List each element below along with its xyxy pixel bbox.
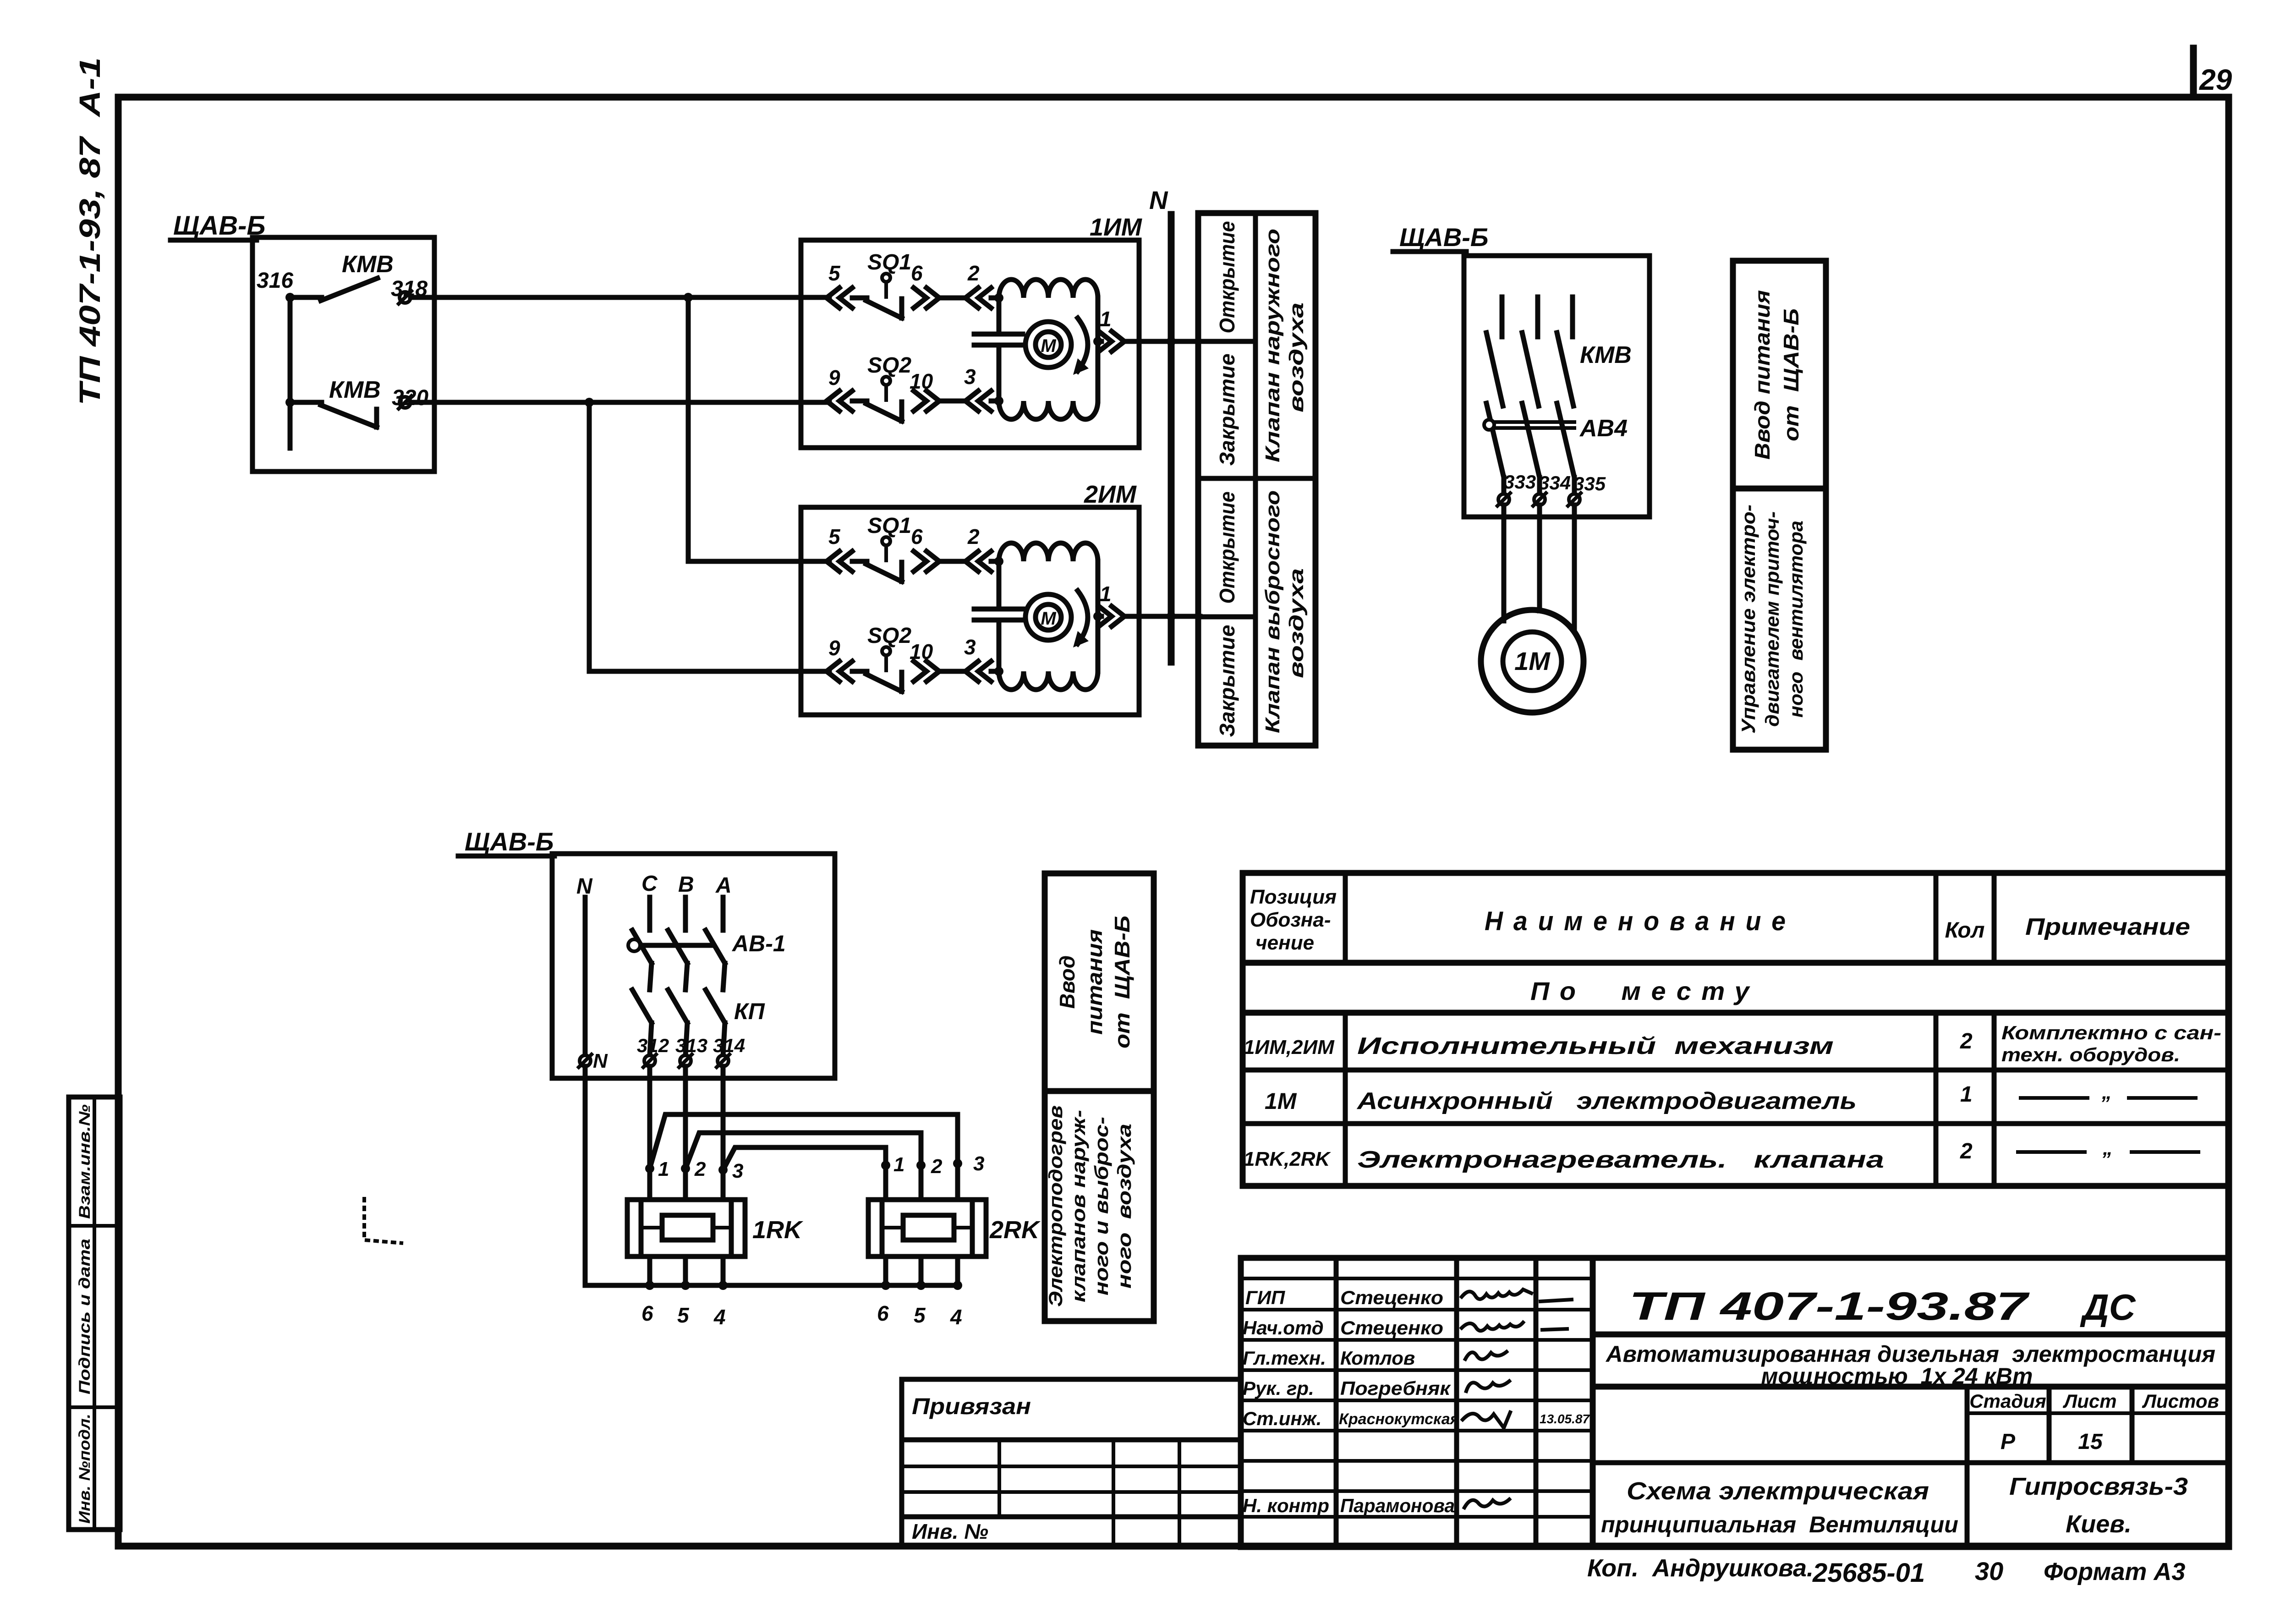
- svg-text:1: 1: [1100, 582, 1112, 606]
- svg-text:316: 316: [257, 269, 293, 293]
- info box (middle) frame: [1045, 873, 1154, 1321]
- signature table columns: [1336, 1258, 1536, 1547]
- svg-text:4: 4: [950, 1305, 962, 1329]
- svg-text:2: 2: [694, 1158, 706, 1180]
- terminal 334 circle: [1533, 493, 1546, 506]
- valve status legend box: [1198, 213, 1315, 746]
- legend cell Клапан выбросного воздуха: [1261, 490, 1308, 733]
- winding right leg (2ИМ): [1096, 561, 1101, 671]
- info box (right) frame: [1733, 261, 1826, 750]
- svg-text:2: 2: [931, 1155, 943, 1178]
- actuator block 1ИМ box: [801, 240, 1139, 448]
- title block outer frame: [1241, 1258, 2229, 1547]
- svg-text:ного и выброс-: ного и выброс-: [1091, 1117, 1112, 1295]
- svg-text:воздуха: воздуха: [1285, 568, 1308, 678]
- svg-text:Парамонова: Парамонова: [1340, 1495, 1455, 1516]
- terminal 335 circle: [1568, 493, 1581, 506]
- connector chevrons pin 2 (2ИМ): [965, 551, 1000, 571]
- neutral wire down to bottom bus: [583, 1066, 588, 1285]
- svg-text:„: „: [2102, 1137, 2113, 1159]
- svg-text:5: 5: [828, 525, 841, 549]
- phase wire 312 down to heater 1RK pin 1: [647, 1066, 652, 1200]
- svg-text:КП: КП: [734, 999, 765, 1024]
- junction 2RK pin 2: [916, 1161, 926, 1170]
- svg-text:15: 15: [2078, 1430, 2103, 1454]
- svg-text:Взам.инв.№: Взам.инв.№: [76, 1104, 93, 1219]
- svg-text:5: 5: [914, 1303, 926, 1327]
- motor output wire (1ИМ): [1098, 339, 1102, 344]
- svg-text:1М: 1М: [1514, 647, 1551, 675]
- terminal 313 circle: [679, 1054, 692, 1067]
- table row 1ИМ,2ИМ Исполнительный механизм: [1244, 1022, 2221, 1065]
- svg-text:клапанов наруж-: клапанов наруж-: [1068, 1110, 1089, 1302]
- winding node row1 (1ИМ): [994, 293, 1003, 302]
- terminal 312 circle: [643, 1054, 656, 1067]
- capacitor C (2ИМ): [974, 561, 1023, 671]
- limit switch SQ2 (1ИМ): [866, 377, 902, 421]
- svg-text:6: 6: [911, 261, 923, 285]
- organisation Гипросвязь-3 Киев: [2009, 1473, 2188, 1538]
- connector chevrons pin 6 (1ИМ): [914, 288, 966, 308]
- node on bus for lower contact: [285, 398, 295, 407]
- svg-text:1RK,2RK: 1RK,2RK: [1244, 1148, 1331, 1170]
- svg-text:питания: питания: [1083, 929, 1107, 1035]
- connector chevrons pin 3 (1ИМ): [965, 391, 1000, 411]
- svg-text:Стадия: Стадия: [1969, 1390, 2046, 1412]
- svg-text:29: 29: [2199, 63, 2232, 96]
- svg-text:В: В: [678, 872, 694, 897]
- limit switch SQ1 (2ИМ): [866, 537, 902, 582]
- actuator block 2ИМ box: [801, 507, 1139, 715]
- svg-text:Формат А3: Формат А3: [2044, 1558, 2185, 1586]
- svg-text:1: 1: [893, 1153, 904, 1176]
- svg-text:SQ2: SQ2: [867, 624, 911, 648]
- electric heater 1RK symbol: [627, 1200, 745, 1256]
- breaker АВ-1 pole C: [632, 897, 652, 990]
- svg-text:Киев.: Киев.: [2066, 1510, 2132, 1538]
- info text Ввод питания от ЩАВ-Б (right): [1750, 290, 1803, 460]
- svg-text:Ввод питания: Ввод питания: [1750, 290, 1774, 460]
- svg-text:Примечание: Примечание: [2025, 914, 2190, 940]
- svg-text:Кол: Кол: [1945, 918, 1985, 943]
- limit switch SQ1 (1ИМ): [866, 274, 902, 318]
- motor feeder wire phase C: [1572, 505, 1577, 629]
- svg-text:3: 3: [732, 1160, 743, 1182]
- line under Стадия row: [1593, 1460, 2229, 1465]
- winding node row2 (2ИМ): [994, 667, 1003, 676]
- terminal 314 circle: [717, 1054, 729, 1067]
- svg-text:от ЩАВ-Б: от ЩАВ-Б: [1779, 308, 1803, 441]
- breaker АВ-1 trip bar: [628, 939, 713, 951]
- stray pen mark: [364, 1197, 403, 1243]
- svg-text:SQ1: SQ1: [867, 250, 911, 274]
- heater 1RK bottom pin labels 6 5 4: [641, 1301, 726, 1329]
- terminal N circle (lower panel): [579, 1054, 592, 1067]
- svg-text:N: N: [593, 1050, 608, 1072]
- svg-text:Инв. №подл.: Инв. №подл.: [76, 1414, 93, 1524]
- breaker АВ4 pole A blade: [1486, 403, 1504, 494]
- svg-text:9: 9: [828, 636, 840, 660]
- svg-text:С: С: [641, 872, 658, 896]
- heater 1RK bottom leads: [650, 1256, 723, 1285]
- svg-text:6: 6: [641, 1301, 653, 1325]
- panel ЩАВ-Б (lower) label underline: [458, 854, 554, 859]
- svg-text:3: 3: [973, 1152, 984, 1175]
- breaker АВ-1 pole B: [668, 897, 687, 990]
- svg-text:Управление электро-: Управление электро-: [1737, 505, 1759, 734]
- svg-text:АВ-1: АВ-1: [731, 931, 786, 956]
- motor 1М outer circle: [1481, 610, 1584, 713]
- breaker АВ-1 pole A: [706, 897, 725, 990]
- node 316 junction: [285, 293, 295, 302]
- svg-text:А: А: [715, 873, 732, 898]
- panel ЩАВ-Б (lower) box: [552, 854, 835, 1078]
- sheet number tick mark: [2190, 48, 2197, 97]
- wire branch 1RK pin2 to 2RK pin2: [685, 1133, 921, 1169]
- svg-text:Р: Р: [2001, 1430, 2016, 1454]
- svg-text:чение: чение: [1255, 932, 1314, 954]
- svg-text:Краснокутская: Краснокутская: [1339, 1410, 1459, 1428]
- svg-text:6: 6: [877, 1301, 889, 1325]
- svg-text:N: N: [1149, 186, 1168, 214]
- junction 2ИМ output on N bus: [1167, 612, 1176, 621]
- panel ЩАВ-Б (right) box: [1464, 256, 1650, 517]
- capacitor C (1ИМ): [974, 298, 1023, 401]
- svg-text:1RK: 1RK: [752, 1216, 804, 1244]
- junction on wire 318: [684, 293, 693, 302]
- signature row Рук. гр. Погребняк: [1243, 1377, 1509, 1399]
- svg-text:1ИМ: 1ИМ: [1090, 214, 1142, 241]
- svg-text:2: 2: [967, 261, 980, 285]
- contact КМВ lower (wire and blade): [290, 402, 435, 427]
- phase wire 314 down to heater 1RK pin 3: [721, 1066, 726, 1200]
- wire 1ИМ output to N bus: [1124, 339, 1200, 344]
- svg-text:Листов: Листов: [2142, 1390, 2219, 1412]
- wires 2RK pins down into heater: [886, 1163, 958, 1200]
- wire 318 to block 1ИМ: [411, 295, 829, 300]
- svg-text:Нач.отд: Нач.отд: [1243, 1317, 1324, 1339]
- connector chevrons pin 10 (2ИМ): [914, 661, 966, 681]
- svg-text:КМВ: КМВ: [329, 377, 381, 403]
- svg-text:3: 3: [964, 365, 976, 389]
- neutral bus N: [1168, 214, 1175, 662]
- svg-text:ТП 407-1-93.87: ТП 407-1-93.87: [1629, 1284, 2030, 1328]
- motor output wire (2ИМ): [1098, 614, 1102, 619]
- wire 320 to block 1ИМ: [411, 400, 829, 405]
- junction 1ИМ output on N bus: [1167, 337, 1176, 346]
- table row 1RK,2RK Электронагреватель клапана: [1244, 1137, 2198, 1173]
- panel ЩАВ-Б (right) label underline: [1393, 249, 1466, 254]
- svg-text:Обозна-: Обозна-: [1250, 909, 1331, 931]
- svg-text:1М: 1М: [1265, 1088, 1297, 1114]
- wire branch 1RK pin1 to 2RK pin3: [650, 1114, 958, 1169]
- svg-text:Ст.инж.: Ст.инж.: [1243, 1408, 1321, 1429]
- svg-text:6: 6: [911, 525, 923, 549]
- svg-text:1: 1: [658, 1158, 669, 1180]
- motor feeder wire phase A: [1502, 505, 1507, 621]
- stator winding upper (2ИМ): [999, 543, 1098, 561]
- svg-text:ЩАВ-Б: ЩАВ-Б: [465, 827, 554, 856]
- svg-text:4: 4: [713, 1305, 726, 1329]
- svg-text:М: М: [1041, 336, 1057, 356]
- svg-text:30: 30: [1975, 1557, 2003, 1586]
- connector chevrons pin 1 (1ИМ): [1099, 331, 1124, 351]
- svg-text:5: 5: [677, 1303, 690, 1327]
- stator winding upper (1ИМ): [999, 280, 1098, 298]
- svg-text:Асинхронный электродвигатель: Асинхронный электродвигатель: [1356, 1088, 1857, 1114]
- svg-text:Наименование: Наименование: [1485, 906, 1796, 936]
- signature row Нач.отд Стеценко: [1243, 1317, 1567, 1339]
- electric heater 2RK symbol: [868, 1200, 986, 1256]
- junction 2RK pin 3: [953, 1159, 962, 1168]
- connector chevrons pin 1 (2ИМ): [1099, 606, 1124, 626]
- signature table rows: [1241, 1278, 1593, 1517]
- connector chevrons pin 9 (1ИМ): [827, 391, 867, 411]
- drawing name Схема электрическая принципиальная вентиляции: [1601, 1477, 1958, 1537]
- svg-text:2: 2: [967, 525, 980, 549]
- breaker АВ4 pole C blade: [1557, 403, 1574, 494]
- svg-text:Исполнительный механизм: Исполнительный механизм: [1357, 1033, 1834, 1059]
- svg-text:ТП 407-1-93, 87 А-1: ТП 407-1-93, 87 А-1: [73, 57, 106, 406]
- info text Ввод питания от ЩАВ-Б (middle): [1055, 916, 1134, 1048]
- panel ЩАВ-Б (top left) label underline: [170, 238, 257, 243]
- parts table frame: [1243, 873, 2229, 1186]
- heater 2RK pin labels 1 2 3: [893, 1152, 984, 1178]
- contactor КМВ pole C: [1557, 297, 1573, 406]
- svg-text:Клапан выбросного: Клапан выбросного: [1261, 490, 1284, 733]
- heater 1RK pin labels 1 2 3: [658, 1158, 743, 1182]
- motor М (2ИМ): [1025, 591, 1089, 647]
- breaker АВ4 trip bar: [1484, 420, 1574, 430]
- svg-text:1ИМ,2ИМ: 1ИМ,2ИМ: [1244, 1036, 1335, 1059]
- svg-text:1: 1: [1960, 1082, 1973, 1107]
- svg-text:2RK: 2RK: [989, 1216, 1041, 1244]
- contactor КМВ pole B: [1522, 297, 1539, 406]
- svg-text:техн. оборудов.: техн. оборудов.: [2001, 1044, 2180, 1065]
- neutral return bus at bottom: [585, 1283, 958, 1288]
- bottom bus junctions: [645, 1281, 962, 1290]
- wire branch to 2ИМ row 2: [589, 402, 829, 671]
- svg-text:334: 334: [1539, 472, 1571, 494]
- svg-text:25685-01: 25685-01: [1812, 1558, 1925, 1588]
- svg-text:АВ4: АВ4: [1579, 415, 1628, 442]
- signature row Н. контр Парамонова: [1243, 1495, 1509, 1516]
- line under document number row: [1593, 1332, 2229, 1338]
- signature row Гл.техн. Котлов: [1243, 1347, 1507, 1369]
- svg-text:Электроподогрев: Электроподогрев: [1045, 1105, 1066, 1307]
- svg-text:SQ1: SQ1: [867, 514, 911, 538]
- wire branch to 2ИМ row 1: [688, 297, 829, 561]
- svg-text:320: 320: [392, 386, 428, 410]
- terminal 333 circle: [1497, 493, 1510, 506]
- heater 2RK bottom pin labels 6 5 4: [877, 1301, 962, 1329]
- svg-text:воздуха: воздуха: [1285, 302, 1308, 412]
- svg-text:333: 333: [1504, 471, 1536, 493]
- terminal 320 circle: [399, 396, 411, 409]
- connector chevrons pin 10 (1ИМ): [914, 391, 966, 411]
- motor М (1ИМ): [1025, 318, 1089, 375]
- terminal 318 circle: [399, 291, 411, 304]
- connector chevrons pin 3 (2ИМ): [965, 661, 1000, 681]
- svg-text:КМВ: КМВ: [1580, 342, 1632, 368]
- connector chevrons pin 5 (1ИМ): [827, 288, 867, 308]
- contactor КП pole B: [668, 990, 687, 1055]
- svg-text:SQ2: SQ2: [867, 353, 911, 378]
- svg-text:Привязан: Привязан: [912, 1394, 1031, 1419]
- table row 1М Асинхронный электродвигатель: [1265, 1081, 2196, 1114]
- connector chevrons pin 2 (1ИМ): [965, 288, 1000, 308]
- junction 1RK pin 1: [645, 1164, 654, 1173]
- Привязан block frame: [902, 1379, 1241, 1547]
- legend cell Клапан наружного воздуха: [1261, 229, 1308, 462]
- contactor КП pole C: [632, 990, 652, 1055]
- junction 1RK pin 2: [681, 1164, 690, 1173]
- svg-text:Лист: Лист: [2062, 1390, 2116, 1412]
- svg-text:Коп. Андрушкова.: Коп. Андрушкова.: [1587, 1554, 1814, 1582]
- wire branch 1RK pin3 to 2RK pin1: [723, 1147, 886, 1170]
- svg-text:Погребняк: Погребняк: [1340, 1377, 1451, 1399]
- svg-text:335: 335: [1573, 473, 1606, 494]
- connector chevrons pin 6 (2ИМ): [914, 551, 966, 571]
- signature row Ст.инж. Краснокутская: [1243, 1408, 1590, 1429]
- svg-text:9: 9: [828, 366, 840, 390]
- svg-text:ГИП: ГИП: [1245, 1287, 1285, 1308]
- winding right leg (1ИМ): [1096, 298, 1101, 401]
- svg-text:Открытие: Открытие: [1215, 221, 1239, 334]
- svg-text:13.05.87: 13.05.87: [1540, 1412, 1590, 1426]
- svg-text:Стеценко: Стеценко: [1340, 1317, 1443, 1339]
- contact КМВ upper (wire and blade): [290, 278, 435, 301]
- table header Позиция Обозначение: [1250, 886, 1337, 954]
- svg-text:Клапан наружного: Клапан наружного: [1261, 229, 1284, 462]
- svg-text:Подпись и дата: Подпись и дата: [76, 1239, 93, 1394]
- Стадия Лист Листов header cells: [1967, 1387, 2229, 1547]
- svg-text:Закрытие: Закрытие: [1215, 625, 1239, 737]
- stator winding lower (2ИМ): [999, 671, 1098, 690]
- svg-text:КМВ: КМВ: [342, 251, 394, 278]
- svg-text:ного воздуха: ного воздуха: [1113, 1124, 1135, 1289]
- svg-text:2: 2: [1960, 1139, 1973, 1163]
- svg-text:Электронагреватель. клапана: Электронагреватель. клапана: [1357, 1147, 1884, 1173]
- svg-text:По месту: По месту: [1530, 977, 1759, 1005]
- phase wire 313 down to heater 1RK pin 2: [683, 1066, 688, 1200]
- bottom caption Коп. Андрушкова 25685-01 30 Формат А3: [1587, 1554, 2185, 1588]
- info text Электроподогрев клапанов наружного и выбросного воздуха: [1045, 1105, 1135, 1307]
- svg-text:двигателем приточ-: двигателем приточ-: [1761, 511, 1783, 727]
- svg-text:Комплектно с сан-: Комплектно с сан-: [2001, 1022, 2221, 1043]
- svg-text:Рук. гр.: Рук. гр.: [1243, 1377, 1314, 1399]
- left margin stamp strip: [69, 1097, 120, 1530]
- svg-text:Гипросвязь-3: Гипросвязь-3: [2009, 1473, 2188, 1500]
- svg-text:принципиальная Вентиляции: принципиальная Вентиляции: [1601, 1512, 1958, 1537]
- heater 2RK bottom leads: [886, 1256, 958, 1285]
- neutral wire inside lower panel: [583, 897, 588, 1055]
- svg-text:2ИМ: 2ИМ: [1084, 481, 1137, 508]
- svg-text:Стеценко: Стеценко: [1340, 1287, 1443, 1308]
- svg-text:Н. контр: Н. контр: [1243, 1495, 1329, 1516]
- limit switch SQ2 (2ИМ): [866, 647, 902, 691]
- wire 2ИМ output to N bus: [1124, 614, 1200, 619]
- winding node row1 (2ИМ): [994, 557, 1003, 566]
- svg-text:ЩАВ-Б: ЩАВ-Б: [1399, 223, 1489, 252]
- svg-text:М: М: [1041, 609, 1057, 629]
- stator winding lower (1ИМ): [999, 401, 1098, 419]
- svg-text:Инв. №: Инв. №: [912, 1520, 988, 1543]
- node 316 bus: [288, 297, 293, 448]
- svg-text:Ввод: Ввод: [1055, 955, 1079, 1009]
- svg-text:2: 2: [1960, 1029, 1973, 1053]
- connector chevrons pin 9 (2ИМ): [827, 661, 867, 681]
- motor 1М inner circle: [1503, 632, 1562, 691]
- svg-text:от ЩАВ-Б: от ЩАВ-Б: [1110, 916, 1134, 1048]
- contactor КП pole A: [706, 990, 725, 1055]
- signature row ГИП Стеценко: [1245, 1287, 1572, 1308]
- svg-text:312: 312: [637, 1035, 669, 1056]
- junction 1RK pin 3: [718, 1165, 728, 1174]
- junction 2RK pin 1: [881, 1161, 890, 1170]
- svg-text:1: 1: [1100, 307, 1112, 331]
- svg-text:Схема электрическая: Схема электрическая: [1627, 1477, 1929, 1505]
- breaker АВ4 pole B blade: [1522, 403, 1540, 494]
- svg-text:Гл.техн.: Гл.техн.: [1243, 1347, 1326, 1369]
- connector chevrons pin 5 (2ИМ): [827, 551, 867, 571]
- motor feeder wire phase B: [1537, 505, 1542, 611]
- svg-text:Котлов: Котлов: [1340, 1347, 1415, 1369]
- svg-text:„: „: [2101, 1081, 2112, 1103]
- svg-text:Открытие: Открытие: [1215, 492, 1239, 604]
- svg-text:Позиция: Позиция: [1250, 886, 1337, 908]
- svg-text:ДС: ДС: [2080, 1287, 2136, 1328]
- junction on wire 320: [585, 398, 594, 407]
- line under project title row: [1593, 1384, 2229, 1390]
- svg-text:Закрытие: Закрытие: [1215, 354, 1239, 466]
- panel ЩАВ-Б (top left) box: [252, 237, 434, 472]
- svg-text:ного вентилятора: ного вентилятора: [1785, 521, 1807, 718]
- contactor КМВ pole A: [1486, 297, 1503, 406]
- svg-text:3: 3: [964, 635, 976, 659]
- winding node row2 (1ИМ): [994, 396, 1003, 406]
- svg-text:5: 5: [828, 261, 841, 285]
- info text Управление электродвигателем приточного вентилятора: [1737, 505, 1807, 734]
